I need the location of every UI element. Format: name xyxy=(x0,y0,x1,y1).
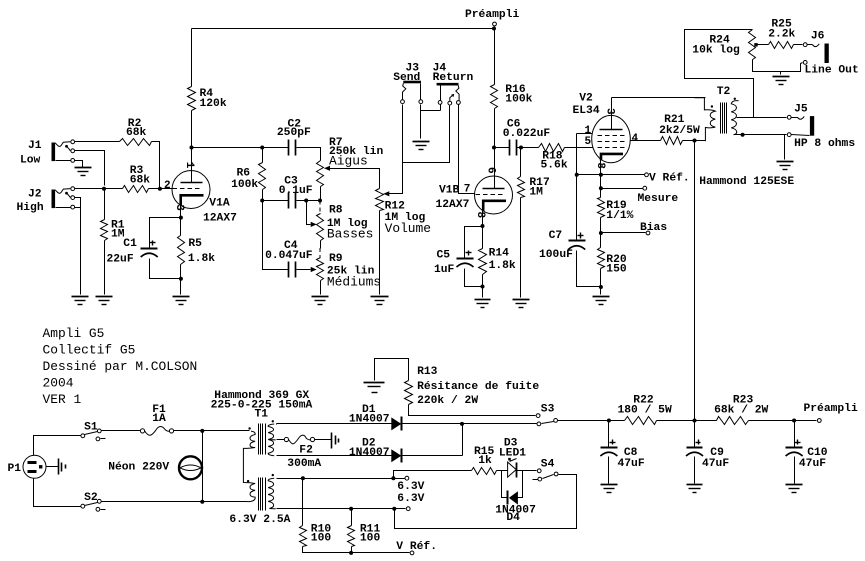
svg-text:J5: J5 xyxy=(794,104,808,116)
label R11 value xyxy=(360,523,381,544)
wire R4 top xyxy=(191,29,193,87)
wire T2 secondary bottom to J5 sleeve xyxy=(734,134,787,136)
label J1 xyxy=(20,140,42,167)
label Bias xyxy=(640,222,667,234)
label S3 xyxy=(541,404,555,416)
wire R14 to ground xyxy=(482,287,484,298)
resistor R23 xyxy=(717,417,749,425)
capacitor C9 wire top xyxy=(694,421,696,448)
svg-text:R5: R5 xyxy=(188,238,202,250)
wiper of R24 xyxy=(754,43,768,46)
svg-text:Dessiné par M.COLSON: Dessiné par M.COLSON xyxy=(43,359,198,374)
resistor R14 xyxy=(479,249,487,275)
svg-text:Hammond 125ESE: Hammond 125ESE xyxy=(699,176,794,188)
wire J1 tip to R2 xyxy=(75,141,120,143)
wire C3 node to R8 wiper xyxy=(307,201,311,225)
label V1B xyxy=(436,185,470,212)
svg-text:V Réf.: V Réf. xyxy=(396,541,437,553)
transformer T1 phase dots xyxy=(247,420,274,482)
junction neon top xyxy=(200,429,204,433)
wire V1A cathode to C1/R5 node xyxy=(180,206,182,218)
ground of R12 xyxy=(371,297,389,305)
label R22 value xyxy=(618,395,672,417)
junction B+ at T2 primary xyxy=(693,139,697,143)
jack J5 (HP 8 ohms speaker) xyxy=(787,115,814,136)
pin 8 of V1B xyxy=(474,211,486,218)
switch S1 xyxy=(81,429,106,441)
capacitor C4 xyxy=(289,262,296,278)
svg-text:S4: S4 xyxy=(541,459,555,471)
junction V1A cathode node xyxy=(179,216,183,220)
potentiometer R9 (Mediums) track xyxy=(317,258,324,281)
label D1 value xyxy=(349,404,390,425)
svg-text:V2: V2 xyxy=(579,93,593,105)
svg-text:T2: T2 xyxy=(717,86,731,98)
label Hammond 125ESE xyxy=(699,176,794,188)
wire D2 to rectifier junction xyxy=(403,424,463,456)
lamp Neon 220V xyxy=(179,456,202,479)
wire R1 to ground xyxy=(104,241,106,295)
svg-text:Aigus: Aigus xyxy=(329,154,368,169)
svg-text:HP 8 ohms: HP 8 ohms xyxy=(794,138,855,150)
junction R10 tap xyxy=(301,476,305,480)
node Preampli (preamp B+ terminal, top) xyxy=(493,22,497,28)
node V Ref terminal (heater reference) xyxy=(410,551,414,555)
potentiometer R8 (Basses) track xyxy=(317,214,324,241)
label S1 xyxy=(84,422,98,434)
svg-text:1N4007: 1N4007 xyxy=(349,447,390,459)
wire LED feed from heater line xyxy=(394,471,472,479)
resistor R21 xyxy=(661,137,683,145)
label J5 xyxy=(794,104,855,151)
svg-text:R13: R13 xyxy=(417,366,438,378)
svg-text:LED1: LED1 xyxy=(499,448,526,460)
capacitor C8 xyxy=(600,440,617,457)
label F2 value xyxy=(287,444,321,470)
label R4 value xyxy=(200,88,227,110)
wire T2 secondary tap to J5 tip xyxy=(737,117,787,119)
svg-text:1.8k: 1.8k xyxy=(188,253,215,265)
svg-text:5: 5 xyxy=(585,136,592,148)
capacitor C5 xyxy=(457,251,474,268)
jack J3 (Send) xyxy=(401,81,423,104)
svg-text:Ampli G5: Ampli G5 xyxy=(43,326,105,341)
junction C10 top xyxy=(792,419,796,423)
wire J2 switch contact to sleeve column xyxy=(75,198,81,208)
svg-text:2: 2 xyxy=(164,180,171,192)
capacitor C5 wire top xyxy=(465,227,483,259)
svg-text:0.047uF: 0.047uF xyxy=(265,250,313,262)
resistor R20 wire top xyxy=(600,233,602,248)
wire R9 to ground xyxy=(320,281,322,295)
wire heater line 2 xyxy=(277,508,406,510)
wiper of R9 xyxy=(311,267,317,272)
capacitor C8 wire top xyxy=(608,421,610,448)
junction cathode node xyxy=(599,173,603,177)
wire line-out ground stem xyxy=(780,72,782,75)
junction R2/R3 at grid line xyxy=(158,187,162,191)
label 6.3V terminals xyxy=(397,481,424,505)
svg-text:Néon 220V: Néon 220V xyxy=(108,461,169,473)
capacitor C5 wire bottom xyxy=(465,269,483,287)
resistor R15 xyxy=(472,468,497,475)
label R14 value xyxy=(489,248,516,273)
wire R5 to ground xyxy=(180,279,182,295)
ground of R13 xyxy=(364,383,385,393)
wire R24 top loop xyxy=(685,30,754,118)
wire HT center tap to F2 xyxy=(277,439,285,441)
svg-text:68k: 68k xyxy=(130,175,151,187)
junction R5/C1 bottom xyxy=(179,277,183,281)
label R17 value xyxy=(529,177,550,199)
svg-text:5.6k: 5.6k xyxy=(541,160,568,172)
pin 6 of V1B xyxy=(485,167,497,174)
wire V1B plate pin 6 to C6 node xyxy=(494,148,496,177)
resistor R14 wire top xyxy=(482,227,484,249)
resistor R2 xyxy=(120,139,152,146)
svg-text:Préampli: Préampli xyxy=(465,9,519,21)
node 6.3V terminal 2 xyxy=(406,507,410,511)
wire C3 from R6 node xyxy=(263,200,289,202)
svg-text:Préampli: Préampli xyxy=(804,403,858,415)
wire V2 screen pin 4 to R21 xyxy=(631,140,661,142)
node Bias terminal xyxy=(646,231,650,235)
svg-text:47uF: 47uF xyxy=(618,458,645,470)
potentiometer R24 (10k log) track xyxy=(749,30,756,60)
label R23 value xyxy=(714,395,768,417)
wire R20 to ground xyxy=(600,287,602,295)
wire D1 to S3 xyxy=(403,423,537,425)
resistor R17 xyxy=(518,177,525,198)
transformer T2 phase dots xyxy=(711,98,736,108)
ground of R14/C5 xyxy=(475,300,491,308)
label R18 value xyxy=(541,151,568,172)
ground of C10 xyxy=(786,485,803,493)
wire J3 sleeve to ground and J4 sleeve xyxy=(421,105,441,139)
label C10 value xyxy=(799,447,828,470)
resistor R25 xyxy=(769,42,794,49)
resistor R20 xyxy=(598,248,605,269)
wire C3 to R7 column xyxy=(297,200,321,202)
wire neon column xyxy=(202,431,204,502)
junction C8 top xyxy=(607,419,611,423)
label R16 value xyxy=(505,84,532,106)
svg-text:C1: C1 xyxy=(123,238,137,250)
ground of speaker return xyxy=(777,162,794,170)
wire top B+ rail from R4 to R16 column xyxy=(192,28,495,30)
wire C9 node to R23 xyxy=(695,420,717,422)
fuse F1 xyxy=(140,427,173,436)
label R12 value xyxy=(385,200,431,236)
label R6 value xyxy=(231,168,258,192)
junction R20/C7 bottom xyxy=(599,285,603,289)
label C2 value xyxy=(277,119,311,140)
label R13 value xyxy=(417,366,539,407)
ground of R20/C7 xyxy=(593,297,610,305)
switch S3 (standby) xyxy=(536,414,557,426)
resistor R13 top loop to ground xyxy=(375,359,409,381)
wire R20 bottom xyxy=(600,269,602,287)
label D2 value xyxy=(349,438,390,459)
resistor R11 xyxy=(348,526,355,547)
junction R11 bottom xyxy=(349,551,353,555)
ground of line out xyxy=(773,77,790,85)
wire R6 column down to C4 xyxy=(263,201,289,270)
svg-text:180 / 5W: 180 / 5W xyxy=(618,405,672,417)
svg-text:R8: R8 xyxy=(329,205,343,217)
label V1A xyxy=(203,198,237,225)
svg-text:100uF: 100uF xyxy=(539,249,573,261)
svg-text:High: High xyxy=(17,202,44,214)
label C6 value xyxy=(503,119,551,141)
svg-text:3: 3 xyxy=(603,108,615,115)
wire V1A plate pin 1 to node xyxy=(191,148,193,171)
wire V2 cathode pin 8 down xyxy=(600,161,602,175)
svg-text:68k: 68k xyxy=(126,127,147,139)
svg-text:Bias: Bias xyxy=(640,222,667,234)
svg-text:Résitance de fuite: Résitance de fuite xyxy=(417,381,539,393)
junction S4 return tap xyxy=(392,507,396,511)
wire R4 bottom to plate node xyxy=(191,111,193,148)
ground of R1 xyxy=(96,297,113,305)
switch S4 (LED switch) xyxy=(533,469,558,481)
pin 3 of V1A xyxy=(173,204,185,211)
svg-text:S1: S1 xyxy=(84,422,98,434)
svg-text:S2: S2 xyxy=(84,492,98,504)
resistor R4 xyxy=(188,87,196,111)
label Mesure xyxy=(638,193,679,205)
junction R7 bottom / C3 xyxy=(318,199,322,203)
label C3 value xyxy=(279,176,313,198)
wire J3 tip column lower xyxy=(402,163,404,194)
svg-text:1/1%: 1/1% xyxy=(606,210,633,222)
wiper of R12 xyxy=(383,191,389,196)
wire R18 to V2 grid (pin 5) xyxy=(565,147,593,149)
wire J4 sleeve down xyxy=(440,105,442,111)
svg-text:22uF: 22uF xyxy=(107,254,134,266)
label V2 xyxy=(573,93,600,118)
label R7 value xyxy=(329,137,383,169)
wire R12 wiper to J3 tip xyxy=(389,105,403,194)
potentiometer R7 (Aigus) track xyxy=(317,161,324,187)
capacitor C1 wire top xyxy=(150,218,181,249)
svg-text:3: 3 xyxy=(173,204,185,211)
wire C6 node left plate xyxy=(495,147,510,149)
wire J2 sleeve down to ground xyxy=(75,208,81,295)
wire P1 line to S1 xyxy=(34,436,81,456)
svg-text:V Réf.: V Réf. xyxy=(649,173,690,185)
switch S2 xyxy=(81,499,106,511)
capacitor C1 xyxy=(141,241,158,258)
svg-text:Line Out: Line Out xyxy=(805,65,859,77)
capacitor C10 wire bottom xyxy=(794,457,796,484)
svg-text:R12: R12 xyxy=(385,200,406,212)
wire R24 bottom to J6 sleeve xyxy=(753,60,803,72)
svg-text:R6: R6 xyxy=(237,168,251,180)
label F1 value xyxy=(152,404,166,425)
label R21 value xyxy=(659,114,700,137)
pin 8 of V2 xyxy=(594,162,606,169)
diode D4 1N4007 (reverse protection) xyxy=(502,471,523,505)
pin 4 of V2 xyxy=(632,133,639,145)
junction Bias node xyxy=(599,231,603,235)
ground of J3/J4 sleeves xyxy=(413,142,430,150)
transformer T1 upper core xyxy=(259,424,266,455)
svg-text:D4: D4 xyxy=(506,512,520,524)
svg-text:C5: C5 xyxy=(437,250,451,262)
wire P1 earth pin xyxy=(47,466,59,468)
wiper of R7 to R12 top xyxy=(324,166,380,189)
svg-text:J1: J1 xyxy=(28,140,42,152)
svg-text:10k log: 10k log xyxy=(692,45,740,57)
svg-text:6.3V 2.5A: 6.3V 2.5A xyxy=(229,514,290,526)
svg-text:1.8k: 1.8k xyxy=(489,260,516,272)
resistor R22 xyxy=(625,417,657,425)
resistor R16 xyxy=(491,85,498,109)
label P1 xyxy=(8,463,22,475)
wire R13 to S3 xyxy=(409,405,536,416)
transformer T1 HT secondary winding xyxy=(268,424,276,456)
junction T2 secondary ground xyxy=(741,133,745,137)
label title block xyxy=(43,326,198,407)
svg-text:100k: 100k xyxy=(231,179,258,191)
pin 3 of V2 xyxy=(603,108,615,115)
pin 5 of V2 xyxy=(585,136,592,148)
label R15 value xyxy=(474,446,495,467)
label R20 value xyxy=(606,254,627,276)
svg-text:R14: R14 xyxy=(489,248,510,260)
earth symbol at F2 (HT center tap) xyxy=(332,433,339,449)
label R1 value xyxy=(111,220,125,241)
svg-text:7: 7 xyxy=(464,184,471,196)
label R10 value xyxy=(311,523,332,544)
wire J1 sleeve to ground xyxy=(75,161,83,168)
wire R15 to LED block xyxy=(497,470,537,472)
svg-text:S3: S3 xyxy=(541,404,555,416)
potentiometer R12 (Volume) track xyxy=(376,189,384,211)
transformer T2 secondary winding xyxy=(731,101,738,135)
label Neon value xyxy=(108,461,169,473)
svg-text:1k: 1k xyxy=(478,455,492,467)
label C7 value xyxy=(539,230,573,261)
wire R7 bottom to C3 node xyxy=(320,187,322,201)
svg-text:120k: 120k xyxy=(200,98,227,110)
svg-text:1M: 1M xyxy=(529,187,543,199)
wire R14 bottom xyxy=(482,275,484,287)
wire humdinger common to V Ref xyxy=(303,547,410,553)
capacitor C1 wire bottom xyxy=(150,259,181,279)
wire R11 top xyxy=(351,509,353,526)
svg-text:6.3V: 6.3V xyxy=(397,481,424,493)
svg-text:Send: Send xyxy=(393,72,420,84)
wire R25 to J6 tip xyxy=(794,44,803,46)
resistor R19 wire top xyxy=(600,175,602,198)
wire R17 to ground xyxy=(520,198,522,298)
ground of R9 xyxy=(312,297,329,305)
jack J6 (Line Out) xyxy=(803,43,829,65)
junction R6/C3 node xyxy=(260,199,264,203)
label J4 xyxy=(433,63,474,85)
wire F1 to T1 primary xyxy=(174,430,250,432)
svg-text:C7: C7 xyxy=(549,230,563,242)
wire S2 to T1 primary bottom xyxy=(102,501,248,503)
svg-text:2.2k: 2.2k xyxy=(768,29,795,41)
label heater winding value xyxy=(229,514,290,526)
junction top B+ at R16 column xyxy=(492,27,496,31)
junction neon bottom xyxy=(200,500,204,504)
wire R12 to ground xyxy=(379,211,381,295)
jack J4 (Return) xyxy=(437,83,461,105)
svg-text:F2: F2 xyxy=(299,444,313,456)
wire R11 bottom xyxy=(351,547,353,553)
svg-text:1uF: 1uF xyxy=(434,264,455,276)
transformer T2 primary winding xyxy=(695,98,716,142)
wire cathode node to V Ref terminal xyxy=(577,174,645,176)
label T2 xyxy=(717,86,731,98)
svg-text:8: 8 xyxy=(474,211,486,218)
junction V1A plate node xyxy=(190,146,194,150)
potentiometer R8 (Basses) upper dashed link xyxy=(319,201,321,214)
wire C2 to R7 top xyxy=(297,148,321,161)
svg-text:0.1uF: 0.1uF xyxy=(279,185,313,197)
plug P1 (mains) xyxy=(23,455,46,478)
junction C3/R8 wiper tap xyxy=(304,199,308,203)
label J2 xyxy=(17,189,44,215)
junction R6 top xyxy=(260,146,264,150)
pin 1 of V2 xyxy=(585,125,592,137)
capacitor C7 xyxy=(568,233,585,250)
svg-text:47uF: 47uF xyxy=(702,458,729,470)
capacitor C9 wire bottom xyxy=(694,457,696,484)
ground of J2 xyxy=(72,297,89,305)
svg-text:47uF: 47uF xyxy=(799,458,826,470)
label V Ref bottom xyxy=(396,541,437,553)
svg-text:P1: P1 xyxy=(8,463,22,475)
transformer T1 lower core xyxy=(259,478,266,511)
junction C7 top node xyxy=(575,173,579,177)
svg-text:6.3V: 6.3V xyxy=(397,493,424,505)
label D4 value xyxy=(495,505,536,525)
wire R2 to grid column xyxy=(152,142,160,189)
capacitor C9 xyxy=(686,440,703,457)
svg-text:V1A: V1A xyxy=(209,198,230,210)
svg-text:2k2/5W: 2k2/5W xyxy=(659,125,700,137)
label C4 value xyxy=(265,240,313,262)
svg-text:100: 100 xyxy=(311,532,332,544)
capacitor C6 xyxy=(510,140,517,156)
capacitor C3 xyxy=(289,193,296,209)
wire heater line 1 xyxy=(277,478,405,480)
junction V1B cathode node xyxy=(481,224,485,228)
wire R21 to B+ node xyxy=(683,140,695,142)
svg-text:Return: Return xyxy=(433,72,474,84)
wire J4 tip to V1B grid (pin 7) xyxy=(459,105,475,194)
svg-text:Mesure: Mesure xyxy=(638,193,679,205)
transformer T1 heater secondary winding xyxy=(268,478,276,509)
capacitor C2 xyxy=(289,140,296,156)
wire T2 primary bottom lead xyxy=(695,140,706,142)
capacitor C10 xyxy=(786,440,803,457)
node 6.3V terminal 1 xyxy=(405,476,409,480)
svg-text:12AX7: 12AX7 xyxy=(203,213,237,225)
label J3 xyxy=(393,63,420,85)
wire R19 bottom to Bias node xyxy=(600,218,602,233)
ground of R17 xyxy=(513,300,530,308)
capacitor C8 wire bottom xyxy=(608,457,610,484)
svg-text:1N4007: 1N4007 xyxy=(349,414,390,426)
earth symbol at P1 xyxy=(59,459,66,475)
LED D3 LED1 xyxy=(508,458,517,478)
